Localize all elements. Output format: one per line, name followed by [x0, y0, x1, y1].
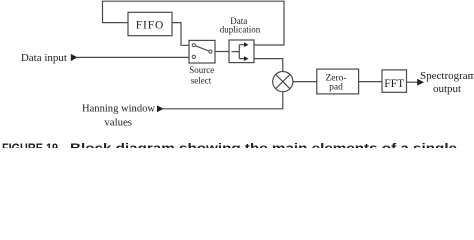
wire FIFO output to source select: [172, 23, 189, 46]
svg-text:FFT: FFT: [384, 78, 404, 90]
switch source select: [189, 40, 215, 63]
multiplier: [273, 72, 293, 92]
block data duplication: [229, 40, 254, 63]
arrowhead data input: [71, 54, 78, 61]
svg-text:select: select: [191, 75, 212, 85]
svg-text:Spectrogram: Spectrogram: [420, 70, 474, 82]
svg-text:duplication: duplication: [220, 24, 261, 34]
svg-text:pad: pad: [329, 82, 343, 92]
svg-text:Source: Source: [189, 65, 214, 75]
block zero-pad: [317, 69, 359, 94]
svg-text:output: output: [433, 83, 461, 95]
label Source select: [189, 65, 214, 85]
wire duplication top output to feedback: [254, 44, 285, 46]
arrowhead hanning: [157, 105, 164, 112]
wire feedback left vertical into FIFO: [103, 1, 129, 23]
block FFT: [382, 70, 407, 92]
wire data input: [77, 56, 189, 58]
wire duplication bottom output to multiplier: [254, 59, 283, 72]
svg-text:FIFO: FIFO: [136, 19, 165, 31]
wire feedback right vertical: [283, 1, 285, 45]
block FIFO: [128, 12, 172, 35]
svg-text:values: values: [104, 116, 132, 128]
arrowhead spectrogram output: [417, 79, 424, 86]
wire multiplier bottom to hanning line: [163, 92, 283, 109]
svg-text:Block diagram showing the main: Block diagram showing the main elements …: [70, 141, 457, 148]
wire feedback top horizontal: [103, 0, 285, 2]
svg-text:Hanning window: Hanning window: [82, 102, 155, 114]
label Data duplication: [220, 16, 261, 34]
label Spectrogram output: [420, 70, 474, 95]
wire multiplier to zero-pad: [293, 81, 317, 83]
wire zero-pad to FFT: [359, 81, 382, 83]
wire FFT to output arrow: [407, 81, 418, 83]
svg-text:FIGURE 19: FIGURE 19: [2, 141, 58, 148]
label Hanning window values: [82, 102, 155, 128]
svg-text:Data input: Data input: [21, 52, 67, 64]
wire source select to data duplication: [215, 51, 229, 53]
